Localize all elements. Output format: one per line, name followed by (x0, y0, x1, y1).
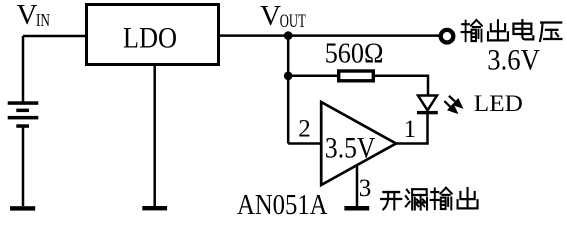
svg-text:3.5V: 3.5V (325, 133, 376, 165)
svg-text:V: V (17, 0, 38, 31)
svg-text:LDO: LDO (123, 22, 177, 55)
svg-text:LED: LED (474, 91, 523, 117)
svg-text:OUT: OUT (280, 12, 306, 32)
svg-text:V: V (260, 0, 281, 32)
svg-text:AN051A: AN051A (237, 190, 328, 215)
svg-text:3.6V: 3.6V (487, 44, 540, 77)
svg-text:3: 3 (359, 175, 372, 202)
svg-text:1: 1 (404, 116, 417, 143)
svg-text:IN: IN (36, 10, 50, 30)
svg-text:2: 2 (298, 116, 311, 143)
svg-text:560Ω: 560Ω (325, 39, 384, 70)
